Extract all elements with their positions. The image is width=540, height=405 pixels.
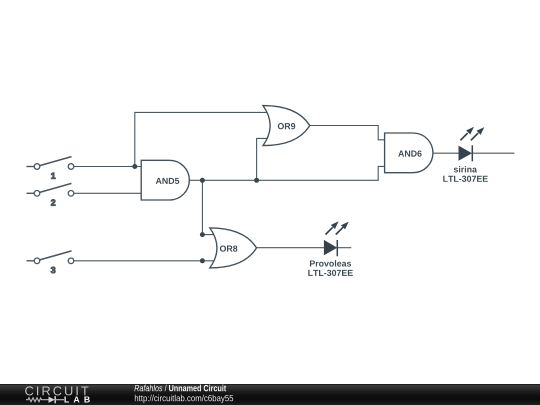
switch SW2 <box>27 183 74 205</box>
wire OR9 output to AND6 input A <box>310 126 386 140</box>
switch SW1 <box>27 157 74 179</box>
LED D-Provoleas <box>308 221 353 276</box>
junction node at SW1/OR9 branch <box>132 164 137 169</box>
value label LTL-307EE <box>308 270 353 276</box>
wire switch2 to AND5 input B <box>74 192 142 194</box>
wire switch1 to AND5 input A <box>74 166 142 168</box>
LED D-Provoleas cathode bar <box>336 240 338 256</box>
junction node at AND5 output / OR9 branch <box>254 178 259 183</box>
AND gate AND5 <box>141 160 189 200</box>
CircuitLab logo <box>0 384 540 405</box>
name label sirina <box>454 166 477 172</box>
wire AND6 output to LED D-sirina anode <box>433 152 460 154</box>
OR gate OR9 <box>263 106 310 146</box>
value label LTL-307EE <box>443 176 488 182</box>
label OR8 <box>220 245 237 251</box>
LED light-emission arrows <box>326 227 333 234</box>
label OR9 <box>278 123 295 129</box>
LED light-emission arrows <box>460 133 467 140</box>
OR gate OR8 <box>210 228 257 268</box>
wire node to OR9 input B <box>257 138 272 180</box>
label 3 <box>51 267 55 273</box>
LED D-Provoleas triangle (anode) <box>324 241 336 255</box>
LED D-sirina cathode bar <box>471 145 473 161</box>
label 2 <box>51 199 55 205</box>
footer bar <box>0 384 540 405</box>
wire node to OR8 input A <box>202 180 219 234</box>
footer title text <box>134 385 233 403</box>
junction node at AND5 output / OR8 branch <box>200 178 205 183</box>
switch SW3 <box>27 251 74 273</box>
wire AND5 output to AND6 input B <box>189 166 385 180</box>
junction node at OR8 input B <box>200 258 205 263</box>
wire switch3 to OR8 input B <box>74 260 219 262</box>
junction node at OR8 input A <box>200 232 205 237</box>
wire LED D-sirina cathode to open end <box>472 152 514 154</box>
name label Provoleas <box>310 260 351 266</box>
wire LED D-Provoleas cathode to open end <box>337 247 351 249</box>
LED D-sirina <box>443 127 488 182</box>
LED D-sirina triangle (anode) <box>459 146 471 160</box>
wire node to OR9 input A (top feedback) <box>135 112 272 166</box>
label AND5 <box>156 178 179 184</box>
AND gate AND6 <box>385 133 433 173</box>
wire OR8 output to LED D-Provoleas anode <box>257 247 325 249</box>
label AND6 <box>398 150 421 156</box>
label 1 <box>51 173 55 179</box>
